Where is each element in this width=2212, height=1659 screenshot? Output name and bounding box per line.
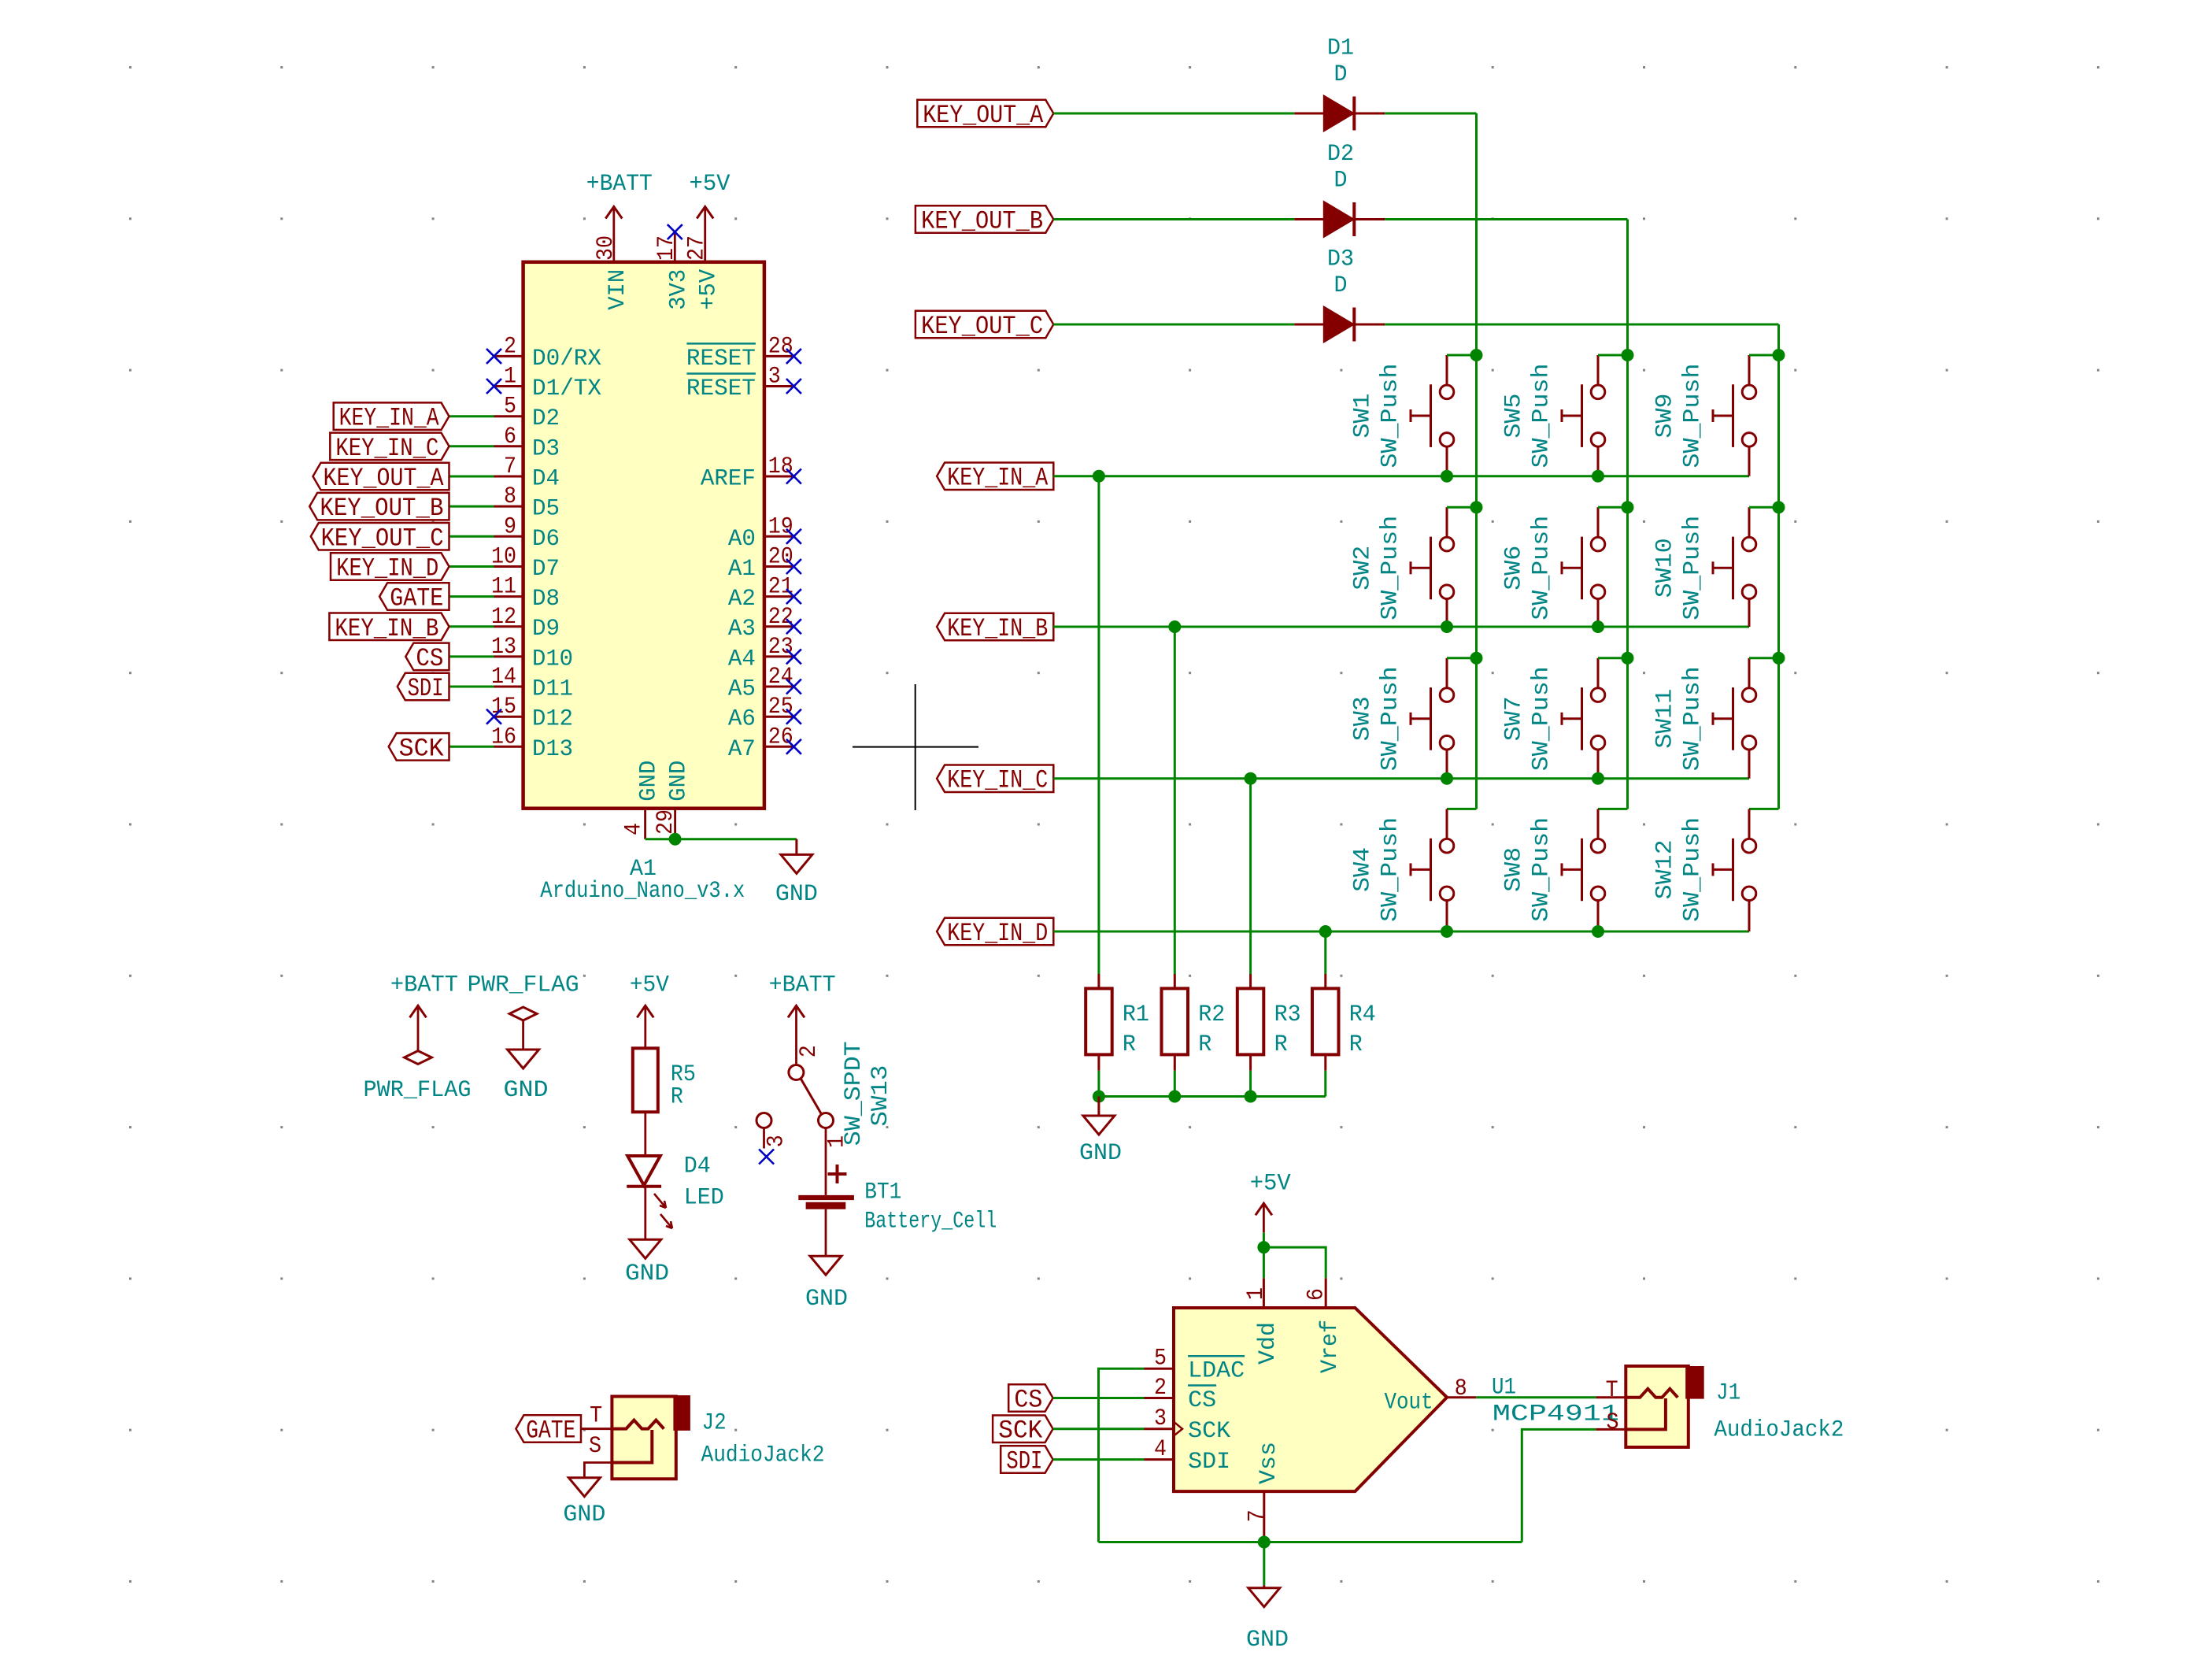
svg-text:D10: D10 (532, 646, 573, 672)
junction (1622, 349, 1634, 361)
diode D3 (1294, 246, 1385, 342)
junction (1592, 470, 1604, 483)
svg-text:+BATT: +BATT (390, 972, 458, 999)
wire KEY_OUT_C to A1 (449, 535, 494, 538)
svg-text:D2: D2 (1327, 141, 1354, 168)
junction (1441, 470, 1453, 483)
origin crosshair (853, 684, 978, 810)
svg-text:SDI: SDI (1188, 1449, 1230, 1476)
value SW_Push of SW4 (1378, 817, 1404, 922)
svg-text:R3: R3 (1274, 1002, 1301, 1028)
pin 24 A5 of A1 (728, 664, 794, 703)
svg-text:5: 5 (1154, 1346, 1167, 1372)
refdes SW11 (1652, 689, 1678, 749)
svg-text:11: 11 (491, 574, 516, 601)
wire R1 to GND bus (1097, 1071, 1100, 1097)
refdes SW12 (1652, 839, 1678, 899)
refdes SW8 (1500, 847, 1527, 892)
svg-text:Arduino_Nano_v3.x: Arduino_Nano_v3.x (540, 878, 745, 905)
label SCK (389, 733, 449, 763)
junction (1441, 925, 1453, 938)
svg-text:KEY_IN_D: KEY_IN_D (947, 919, 1048, 948)
refdes U1 (1492, 1374, 1516, 1401)
pin 25 A6 of A1 (728, 694, 794, 733)
pin 10 D7 of A1 (491, 544, 560, 583)
pin 27 +5V of A1 (684, 207, 723, 310)
svg-text:D7: D7 (532, 556, 560, 583)
wire SDI to A1 (449, 686, 494, 688)
wire switch stub (1598, 506, 1628, 509)
wire KEY_IN_A row (1053, 475, 1749, 477)
svg-text:R4: R4 (1349, 1002, 1376, 1028)
label KEY_IN_D (matrix) (937, 918, 1053, 948)
resistor R4 (1312, 974, 1376, 1071)
LED D4 (627, 1153, 724, 1228)
ground GND (matrix) (1079, 1097, 1122, 1167)
svg-text:Battery_Cell: Battery_Cell (864, 1208, 997, 1235)
junction (1773, 652, 1785, 665)
switch SW6 SW_Push (1562, 507, 1605, 627)
svg-text:SW9: SW9 (1652, 394, 1678, 439)
power PWR_FLAG (right) (468, 972, 579, 1050)
pin 19 A0 of A1 (728, 513, 794, 553)
svg-text:8: 8 (1455, 1376, 1467, 1402)
svg-text:AudioJack2: AudioJack2 (1714, 1417, 1844, 1444)
pin 20 A1 of A1 (728, 544, 794, 583)
power +5V (top) (690, 171, 731, 219)
pin 16 D13 of A1 (491, 724, 573, 763)
svg-text:D4: D4 (684, 1153, 711, 1179)
svg-text:GND: GND (504, 1077, 549, 1104)
svg-text:GND: GND (805, 1286, 848, 1313)
refdes SW5 (1500, 394, 1527, 439)
svg-text:KEY_IN_B: KEY_IN_B (947, 614, 1048, 643)
wire R2 to GND bus (1174, 1071, 1176, 1097)
wire SCK to U1 (1053, 1428, 1145, 1430)
pin 3 RESET of A1 (686, 364, 794, 403)
wire KEY_IN_D to R4 (1324, 931, 1326, 974)
svg-text:D: D (1334, 272, 1348, 299)
pin 29 GND of A1 (653, 761, 693, 839)
svg-text:S: S (589, 1433, 601, 1460)
no-connect (786, 379, 801, 394)
no-connect (786, 649, 801, 664)
wire SCK to A1 (449, 746, 494, 748)
no-connect (486, 349, 501, 364)
svg-text:KEY_OUT_B: KEY_OUT_B (921, 207, 1043, 236)
svg-text:GND: GND (1246, 1627, 1289, 1653)
svg-text:R: R (1198, 1031, 1211, 1058)
value SW_Push of SW12 (1680, 817, 1707, 922)
svg-text:D11: D11 (532, 676, 573, 703)
pin 3 SCK of U1 (1145, 1405, 1231, 1445)
label KEY_IN_A (334, 402, 449, 432)
connector J1 AudioJack2 (1596, 1366, 1844, 1447)
switch SW11 SW_Push (1713, 658, 1756, 779)
ground GND (D4) (625, 1187, 669, 1287)
svg-text:+BATT: +BATT (586, 171, 653, 198)
svg-text:SW11: SW11 (1652, 689, 1678, 749)
svg-text:D1/TX: D1/TX (532, 376, 601, 402)
label KEY_OUT_B (309, 493, 449, 523)
svg-text:SW_Push: SW_Push (1529, 516, 1555, 620)
pin 1 Vdd of U1 (1243, 1278, 1282, 1365)
svg-text:KEY_IN_B: KEY_IN_B (335, 614, 438, 643)
svg-text:6: 6 (1304, 1288, 1330, 1301)
svg-text:SW1: SW1 (1349, 394, 1376, 439)
wire KEY_OUT_C to D3 (1053, 324, 1294, 326)
svg-text:SCK: SCK (998, 1416, 1043, 1446)
switch SW5 SW_Push (1562, 355, 1605, 476)
value SW_Push of SW11 (1680, 666, 1707, 771)
svg-text:3: 3 (763, 1135, 790, 1147)
svg-text:GATE: GATE (526, 1416, 575, 1446)
svg-text:CS: CS (416, 644, 443, 673)
junction (1470, 652, 1483, 665)
svg-text:8: 8 (504, 483, 516, 510)
power +5V (R5) (630, 972, 669, 1049)
junction (1441, 772, 1453, 785)
svg-text:SW_Push: SW_Push (1378, 666, 1404, 771)
pin 2 D0/RX of A1 (494, 333, 602, 372)
label GATE (379, 583, 449, 613)
svg-text:KEY_OUT_A: KEY_OUT_A (923, 101, 1044, 130)
pin 15 D12 of A1 (491, 694, 573, 733)
resistor R3 (1237, 974, 1301, 1071)
svg-text:J1: J1 (1716, 1380, 1740, 1407)
wire GND net to J1 S (1522, 1429, 1596, 1542)
svg-text:KEY_OUT_C: KEY_OUT_C (321, 524, 444, 553)
svg-text:A6: A6 (728, 706, 756, 733)
wire switch stub (1598, 657, 1628, 659)
value SW_Push of SW8 (1529, 817, 1555, 922)
label KEY_OUT_C (916, 311, 1053, 341)
svg-text:D9: D9 (532, 616, 560, 642)
junction (1773, 349, 1785, 361)
svg-text:S: S (1607, 1409, 1619, 1436)
junction (1622, 652, 1634, 665)
svg-text:28: 28 (768, 333, 793, 360)
value SW_Push of SW6 (1529, 516, 1555, 620)
switch SW1 SW_Push (1411, 355, 1454, 476)
svg-text:9: 9 (504, 513, 516, 540)
svg-text:4: 4 (1154, 1436, 1167, 1463)
resistor R1 (1086, 974, 1149, 1071)
svg-text:KEY_IN_D: KEY_IN_D (336, 554, 438, 583)
wire KEY_IN_C row (1053, 777, 1749, 780)
junction (1773, 501, 1785, 513)
junction (1441, 620, 1453, 633)
svg-text:17: 17 (653, 235, 680, 261)
svg-text:LDAC: LDAC (1188, 1358, 1245, 1385)
switch SW9 SW_Push (1713, 355, 1756, 476)
ground GND (J2) (563, 1463, 612, 1529)
label KEY_OUT_A (313, 463, 449, 493)
svg-text:SW_Push: SW_Push (1378, 364, 1404, 468)
svg-text:SW13: SW13 (867, 1065, 894, 1127)
wire GATE to A1 (449, 595, 494, 598)
IC A1 Arduino_Nano_v3.x body (523, 262, 764, 809)
label KEY_IN_D (331, 553, 449, 583)
svg-text:BT1: BT1 (864, 1179, 901, 1206)
refdes SW4 (1349, 847, 1376, 892)
svg-text:D: D (1334, 61, 1348, 88)
no-connect (786, 709, 801, 724)
svg-text:D13: D13 (532, 736, 573, 763)
no-connect (786, 680, 801, 694)
svg-text:21: 21 (768, 574, 793, 601)
pin 4 SDI of U1 (1145, 1436, 1231, 1476)
svg-text:29: 29 (653, 809, 679, 835)
value SW_Push of SW2 (1378, 516, 1404, 620)
pin 6 Vref of U1 (1304, 1278, 1345, 1373)
wire KEY_OUT column 3 (1749, 324, 1779, 809)
label SDI (398, 673, 449, 703)
svg-text:7: 7 (1245, 1509, 1271, 1522)
no-connect (786, 349, 801, 364)
junction (669, 833, 682, 846)
svg-text:D3: D3 (532, 435, 560, 462)
label KEY_OUT_C (311, 523, 449, 553)
label KEY_IN_B (329, 613, 449, 643)
svg-text:3V3: 3V3 (665, 269, 692, 310)
svg-text:AREF: AREF (701, 466, 756, 493)
label GATE (516, 1415, 581, 1445)
svg-text:KEY_OUT_C: KEY_OUT_C (921, 312, 1043, 341)
svg-text:D5: D5 (532, 496, 560, 523)
value SW_Push of SW1 (1378, 364, 1404, 468)
wire switch stub (1749, 657, 1779, 659)
svg-text:SW12: SW12 (1652, 839, 1678, 899)
refdes A1 (630, 856, 657, 883)
pin 4 GND of A1 (621, 761, 663, 839)
svg-text:23: 23 (768, 634, 793, 661)
label KEY_OUT_A (917, 100, 1053, 130)
svg-text:GND: GND (625, 1261, 669, 1287)
svg-text:Vout: Vout (1385, 1389, 1433, 1416)
no-connect (786, 739, 801, 754)
svg-text:D0/RX: D0/RX (532, 346, 601, 372)
wire D3 to column (1385, 324, 1778, 326)
junction (1168, 1091, 1181, 1103)
svg-text:GND: GND (1079, 1140, 1122, 1167)
svg-text:30: 30 (593, 235, 620, 261)
svg-text:SW_Push: SW_Push (1680, 666, 1707, 771)
pin 1 D1/TX of A1 (494, 364, 602, 403)
label SDI (U1) (1001, 1446, 1052, 1476)
svg-text:A5: A5 (728, 676, 756, 703)
ground GND (BT1) (805, 1209, 848, 1313)
power +BATT (top) (586, 171, 653, 219)
resistor R2 (1162, 974, 1226, 1071)
wire SDI to U1 (1053, 1458, 1145, 1461)
svg-text:SW_Push: SW_Push (1529, 817, 1555, 922)
wire KEY_OUT column 2 (1598, 220, 1628, 809)
svg-text:+5V: +5V (696, 269, 723, 310)
svg-text:22: 22 (768, 604, 793, 631)
svg-text:A1: A1 (728, 556, 756, 583)
junction (1592, 925, 1604, 938)
diode D2 (1294, 141, 1385, 236)
svg-text:KEY_IN_A: KEY_IN_A (947, 464, 1049, 493)
svg-text:SW5: SW5 (1500, 394, 1527, 439)
power +BATT (SW13) (769, 972, 836, 1065)
svg-text:SW3: SW3 (1349, 696, 1376, 741)
wire A1 GND to ground (645, 838, 797, 840)
svg-text:VIN: VIN (605, 269, 631, 310)
svg-text:PWR_FLAG: PWR_FLAG (468, 972, 579, 999)
svg-text:CS: CS (1188, 1387, 1216, 1414)
junction (1257, 1241, 1270, 1254)
svg-text:4: 4 (621, 823, 648, 835)
svg-text:25: 25 (768, 694, 793, 720)
label CS (405, 643, 449, 673)
svg-text:7: 7 (504, 454, 516, 480)
svg-text:SW2: SW2 (1349, 546, 1376, 591)
wire LDAC to GND net (1099, 1368, 1145, 1542)
svg-text:+5V: +5V (630, 972, 669, 999)
junction (1258, 1536, 1271, 1549)
wire switch stub (1749, 354, 1779, 357)
pin 5 LDAC of U1 (1145, 1346, 1245, 1385)
wire GND bus (1099, 1095, 1326, 1098)
svg-text:Vref: Vref (1317, 1320, 1344, 1373)
resistor R5 (633, 1048, 696, 1112)
pin 7 D4 of A1 (494, 454, 560, 493)
wire KEY_IN_D to A1 (449, 565, 494, 568)
svg-text:A0: A0 (728, 526, 756, 553)
IC U1 MCP4911 body (1174, 1308, 1447, 1491)
svg-text:6: 6 (504, 424, 516, 450)
pin 22 A3 of A1 (728, 604, 794, 642)
refdes SW9 (1652, 394, 1678, 439)
switch SW8 SW_Push (1562, 809, 1605, 931)
svg-text:SCK: SCK (1188, 1418, 1230, 1445)
wire Vss to GND bus (1099, 1538, 1522, 1586)
wire KEY_OUT_A to A1 (449, 476, 494, 478)
pin 2 CS of U1 (1145, 1375, 1217, 1414)
junction (1470, 501, 1483, 513)
no-connect (786, 619, 801, 634)
svg-text:SW_Push: SW_Push (1378, 817, 1404, 922)
no-connect (486, 379, 501, 394)
svg-text:13: 13 (491, 634, 516, 661)
svg-text:SW10: SW10 (1652, 538, 1678, 598)
wire switch stub (1749, 506, 1779, 509)
pin 14 D11 of A1 (491, 664, 573, 703)
svg-text:SW_Push: SW_Push (1680, 516, 1707, 620)
svg-text:R: R (1123, 1031, 1136, 1058)
svg-text:A3: A3 (728, 616, 756, 642)
svg-text:KEY_IN_C: KEY_IN_C (335, 434, 438, 463)
refdes SW1 (1349, 394, 1376, 439)
svg-text:SW_Push: SW_Push (1680, 364, 1707, 468)
svg-text:16: 16 (491, 724, 516, 750)
refdes SW7 (1500, 696, 1527, 741)
svg-text:3: 3 (768, 364, 781, 391)
no-connect (759, 1150, 774, 1165)
value SW_Push of SW10 (1680, 516, 1707, 620)
refdes SW2 (1349, 546, 1376, 591)
svg-text:1: 1 (1243, 1287, 1270, 1300)
svg-text:KEY_IN_C: KEY_IN_C (947, 766, 1048, 795)
junction (1592, 772, 1604, 785)
no-connect (668, 224, 682, 239)
svg-text:GND: GND (666, 761, 693, 802)
wire KEY_IN_D row (1053, 931, 1749, 933)
svg-text:GND: GND (775, 881, 818, 908)
junction (1168, 620, 1181, 633)
wire KEY_OUT_A to D1 (1053, 113, 1294, 115)
svg-text:1: 1 (504, 364, 516, 391)
pin 8 Vout of U1 (1385, 1376, 1477, 1416)
svg-text:+BATT: +BATT (769, 972, 836, 999)
wire switch stub (1447, 354, 1477, 357)
svg-text:R: R (671, 1083, 683, 1110)
svg-text:2: 2 (1154, 1375, 1167, 1402)
switch SW2 SW_Push (1411, 507, 1454, 627)
power +BATT (flag pair) (390, 972, 458, 1051)
switch SW4 SW_Push (1411, 809, 1454, 931)
svg-text:SW_Push: SW_Push (1680, 817, 1707, 922)
svg-text:10: 10 (491, 544, 516, 571)
svg-text:D: D (1334, 168, 1348, 194)
value SW_Push of SW7 (1529, 666, 1555, 771)
svg-text:AudioJack2: AudioJack2 (701, 1442, 825, 1468)
pin 12 D9 of A1 (491, 604, 560, 642)
svg-text:CS: CS (1014, 1386, 1042, 1415)
wire KEY_IN_B to A1 (449, 625, 494, 628)
svg-text:Vdd: Vdd (1255, 1322, 1282, 1365)
svg-text:SW8: SW8 (1500, 847, 1527, 892)
power +5V (U1) (1250, 1170, 1291, 1232)
no-connect (786, 529, 801, 544)
pin 28 RESET of A1 (686, 333, 794, 372)
svg-text:SCK: SCK (399, 734, 445, 763)
svg-text:Vss: Vss (1256, 1442, 1282, 1484)
svg-text:19: 19 (768, 513, 793, 540)
switch SW7 SW_Push (1562, 658, 1605, 779)
value SW_Push of SW5 (1529, 364, 1555, 468)
wire +5V to Vdd Vref (1263, 1232, 1326, 1278)
svg-text:3: 3 (1154, 1405, 1167, 1432)
svg-text:GATE: GATE (390, 584, 443, 613)
switch SW3 SW_Push (1411, 658, 1454, 779)
refdes SW6 (1500, 546, 1527, 591)
svg-text:LED: LED (684, 1185, 724, 1212)
svg-text:SW_Push: SW_Push (1378, 516, 1404, 620)
label KEY_IN_A (matrix) (937, 463, 1053, 493)
svg-text:20: 20 (768, 544, 793, 571)
junction (1093, 1091, 1105, 1103)
label KEY_OUT_B (916, 206, 1053, 235)
wire CS to A1 (449, 655, 494, 657)
svg-text:T: T (1606, 1377, 1618, 1404)
wire D1 to column (1385, 113, 1476, 115)
wire R4 to GND bus (1324, 1071, 1326, 1097)
svg-text:J2: J2 (702, 1410, 727, 1437)
svg-text:A4: A4 (728, 646, 756, 672)
junction (1470, 349, 1483, 361)
svg-text:A7: A7 (728, 736, 756, 763)
pin 23 A4 of A1 (728, 634, 794, 673)
svg-text:+5V: +5V (1250, 1170, 1291, 1197)
wire CS to U1 (1053, 1397, 1145, 1399)
svg-text:SW4: SW4 (1349, 847, 1376, 892)
svg-text:RESET: RESET (686, 376, 756, 402)
wire SW13 to BT1 (825, 1128, 827, 1195)
svg-text:GND: GND (636, 761, 663, 802)
